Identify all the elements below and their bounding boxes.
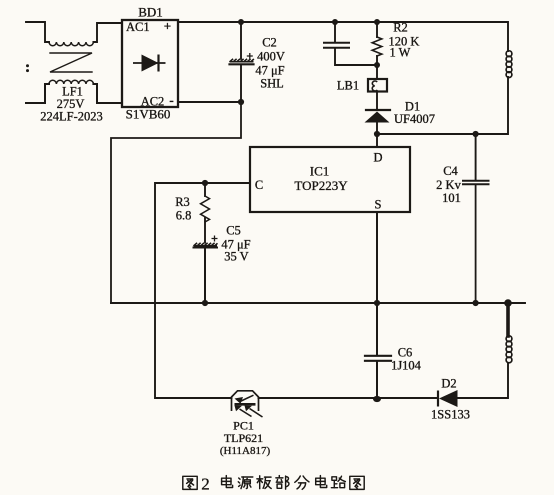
svg-text:2: 2	[201, 475, 210, 494]
svg-text:35 V: 35 V	[224, 250, 248, 264]
svg-text:+: +	[164, 19, 171, 34]
svg-text:SHL: SHL	[260, 77, 284, 91]
svg-text:1SS133: 1SS133	[431, 408, 470, 422]
svg-text:C4: C4	[443, 164, 458, 178]
svg-text:C6: C6	[398, 346, 413, 360]
svg-text:S: S	[375, 198, 382, 212]
svg-text:400V: 400V	[257, 50, 285, 64]
svg-text:6.8: 6.8	[176, 209, 192, 223]
svg-text:BD1: BD1	[138, 5, 163, 20]
svg-text:IC1: IC1	[310, 164, 330, 179]
svg-text:1 W: 1 W	[390, 46, 411, 60]
svg-text:S1VB60: S1VB60	[126, 107, 171, 122]
svg-text:LB1: LB1	[337, 79, 359, 93]
svg-text:D: D	[373, 151, 382, 165]
svg-text:(H11A817): (H11A817)	[220, 445, 271, 457]
svg-text:AC1: AC1	[126, 20, 150, 34]
svg-text:UF4007: UF4007	[394, 112, 435, 126]
svg-text:TOP223Y: TOP223Y	[294, 178, 348, 193]
svg-text:C2: C2	[262, 36, 277, 50]
svg-text:-: -	[169, 93, 173, 108]
svg-text:47 μF: 47 μF	[255, 64, 284, 78]
svg-text:C5: C5	[226, 224, 241, 238]
svg-text:D2: D2	[441, 377, 456, 391]
svg-text:2 Kv: 2 Kv	[436, 178, 461, 192]
svg-text:1J104: 1J104	[391, 359, 422, 373]
svg-text:224LF-2023: 224LF-2023	[40, 110, 103, 124]
svg-text:R3: R3	[175, 195, 190, 209]
svg-text:R2: R2	[393, 21, 408, 35]
svg-text:TLP621: TLP621	[224, 431, 263, 445]
svg-text:101: 101	[442, 191, 461, 205]
svg-text:C: C	[255, 178, 263, 192]
